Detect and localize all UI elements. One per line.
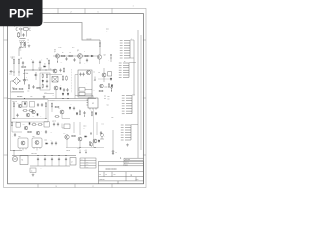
resistor R36 (46, 74, 47, 79)
svg-text:Cxx: Cxx (107, 105, 110, 107)
svg-text:xxx x: xxx x (106, 29, 109, 31)
capacitor C3 (39, 61, 41, 65)
varistor ZNR1 (18, 32, 20, 38)
transistor Q17 (93, 139, 97, 143)
resistor R5 (68, 55, 73, 56)
svg-text:xxx: xxx (19, 136, 21, 138)
inductor L2 box (70, 158, 76, 166)
wire r16 down (51, 108, 53, 112)
wire bus2 (48, 100, 88, 102)
node bridge minus (13, 81, 14, 82)
resistor R9 (66, 76, 67, 81)
diode D13 zener (112, 150, 114, 155)
svg-text:x xx x: x xx x (44, 91, 47, 93)
resistor R16 (51, 103, 52, 108)
wire right drop (112, 130, 114, 150)
fuse F1 (22, 28, 31, 30)
wire r15 chain (45, 107, 47, 118)
inductor L1 common mode choke (20, 38, 26, 43)
resistor R18 (55, 116, 60, 117)
resistor R7 (63, 68, 64, 73)
terminal GND box (30, 168, 36, 173)
capacitor C27 (100, 131, 102, 135)
resistor R11 (99, 90, 104, 91)
wire q2 stub (79, 58, 81, 63)
net arrow 1 (79, 150, 81, 154)
wire R30 down (99, 47, 101, 55)
svg-text:xxxx: xxxx (86, 167, 89, 169)
resistor R4 (61, 55, 66, 56)
svg-text:x xx: x xx (111, 117, 114, 119)
wire q3 stub (99, 59, 101, 64)
wire to U2 (75, 96, 93, 99)
connector CN2 (123, 63, 129, 77)
net arrow 2 (85, 150, 87, 154)
svg-text:xxxx xxx: xxxx xxx (100, 179, 105, 181)
resistor R2 (18, 59, 19, 65)
wire out left (10, 150, 22, 152)
svg-text:x.x x.x: x.x x.x (38, 68, 42, 70)
diode D19 (45, 143, 48, 145)
wire C34 drop (65, 161, 67, 166)
net arrow T1 (94, 77, 96, 81)
wire sec bottom (12, 118, 46, 120)
svg-text:x xx: x xx (10, 74, 13, 76)
transistor Q2 (78, 54, 83, 59)
node C33 top (59, 155, 60, 156)
node bus46 (46, 70, 47, 71)
block outline reg A (18, 138, 28, 148)
block outline secondary stage (11, 100, 48, 123)
node midb j (95, 147, 96, 148)
resistor R44 (19, 88, 24, 89)
resistor R8 (62, 76, 63, 81)
svg-text:Q15: Q15 (63, 133, 66, 135)
capacitor C9 (16, 114, 18, 118)
capacitor C7 (37, 103, 39, 107)
resistor R34 (36, 87, 41, 88)
wire midb v2 (79, 122, 81, 135)
component right mid small (110, 54, 112, 62)
svg-text:xx x: xx x (72, 47, 75, 49)
capacitor C20 (86, 59, 88, 63)
wire snub left (35, 72, 37, 80)
capacitor C12 (53, 123, 55, 127)
resistor R14 (29, 110, 34, 111)
capacitor C24 (45, 130, 47, 134)
svg-text:x xx: x xx (38, 87, 41, 89)
node b2 (24, 70, 25, 71)
resistor R45 (42, 84, 43, 89)
node C31 top (45, 155, 46, 156)
diode D9 (110, 78, 112, 81)
diode D10 (84, 136, 87, 138)
transformer T2 (12, 156, 17, 161)
capacitor C11 (83, 111, 85, 115)
transistor Q4 (53, 69, 57, 73)
wire q16 stub (79, 141, 81, 148)
transistor Q6 (100, 84, 104, 88)
capacitor CX1 (22, 33, 24, 37)
wire c3 drop (39, 64, 41, 70)
node bus j3 (24, 98, 25, 99)
resistor R1 (13, 59, 14, 65)
wire CN2 feed (129, 62, 136, 64)
node c2 (33, 70, 34, 71)
diode D17 (95, 112, 97, 115)
svg-text:x xx: x xx (27, 91, 30, 93)
capacitor C23 (79, 73, 81, 77)
component box mid (64, 124, 70, 129)
transistor Q5 (102, 73, 106, 77)
wire b+ rail (25, 70, 56, 77)
transistor Q11 (24, 126, 28, 130)
bridge rectifier BD1 (13, 78, 20, 85)
node d7 bus (68, 98, 69, 99)
svg-text:x xx x: x xx x (83, 126, 87, 128)
ground out (32, 174, 35, 177)
svg-text:PDF: PDF (9, 7, 33, 21)
wire C31 drop (44, 161, 46, 166)
svg-text:x xx x xx x: x xx x xx x (31, 153, 37, 155)
diode D1 (43, 66, 46, 68)
capacitor C13 (57, 123, 59, 127)
svg-text:Q10: Q10 (58, 108, 61, 110)
capacitor C31 output filter (44, 158, 46, 162)
node r1 low (14, 72, 15, 73)
capacitor C29 (22, 61, 24, 65)
node bridge plus (20, 81, 21, 82)
svg-text:K1: K1 (22, 160, 24, 162)
wire out bus bottom (30, 165, 70, 167)
transistor Q16 (78, 137, 82, 141)
svg-text:xxx xxx: xxx xxx (87, 38, 92, 40)
capacitor C34 output filter (65, 158, 67, 162)
capacitor CY1 (23, 43, 25, 47)
node u2a (84, 116, 85, 117)
wire clow bottom (80, 115, 96, 117)
capacitor C26 (55, 142, 57, 146)
wire C30 drop (37, 161, 39, 166)
wire R1 down (13, 64, 15, 76)
diode D8 (69, 107, 71, 110)
wire ladder1 feed (130, 39, 134, 41)
wire CN4 feed (131, 124, 138, 126)
relay K1 box (20, 156, 28, 165)
wire left rail down (10, 92, 12, 151)
diode D21 (76, 112, 78, 115)
node q1e (57, 62, 58, 63)
svg-text:x xx: x xx (19, 50, 22, 52)
optocoupler PC2 box (30, 102, 35, 108)
resistor R13 (23, 110, 28, 111)
component box CT1 (52, 77, 58, 83)
svg-text:xxxx: xxxx (86, 162, 89, 164)
wire q5 top (103, 68, 105, 73)
diode pair D11 (90, 133, 92, 135)
resistor R23 (71, 135, 76, 136)
svg-text:x x x: x x x (136, 179, 139, 181)
resistor R12 (13, 102, 14, 107)
resistor R41 (89, 141, 90, 146)
transistor Q3 (97, 55, 101, 59)
transistor Q12 (36, 131, 40, 135)
wire bridge gnd (11, 81, 25, 92)
wire switch row bus (53, 55, 98, 57)
svg-text:x xxx: x xxx (44, 140, 47, 142)
capacitor C6 (66, 88, 68, 92)
svg-text:L1: L1 (28, 40, 30, 42)
wire L line (20, 30, 22, 37)
resistor R39 (91, 111, 92, 116)
capacitor C10 (73, 107, 75, 111)
svg-text:xxxx: xxxx (105, 86, 108, 88)
node C34 top (66, 155, 67, 156)
wire right long rail 2 (137, 30, 139, 158)
capacitor C28 (34, 74, 37, 76)
capacitor C22 (46, 85, 48, 89)
transformer T1 box (78, 70, 92, 97)
capacitor C30 (10, 70, 13, 72)
transistor Q10 (60, 110, 64, 114)
wire clow join (62, 114, 70, 119)
node midb j2 (80, 147, 81, 148)
node sec1 (14, 118, 15, 119)
wire R2 down (18, 64, 20, 76)
wire midb bottom (66, 147, 104, 149)
resistor R3 (48, 60, 49, 65)
svg-text:xx-xxx: xx-xxx (17, 96, 22, 98)
wire regA down (22, 150, 24, 151)
connector AC inlet P1 (16, 28, 22, 31)
wire filter outB (25, 42, 27, 48)
wire r3 drop (48, 65, 50, 70)
capacitor C1 bulk electrolytic (23, 77, 26, 85)
snubber box outline (40, 73, 50, 90)
wire right long rail 1 (133, 40, 135, 95)
wire AC line top (44, 23, 97, 41)
capacitor C5 (63, 88, 65, 92)
svg-text:x x x x x: x x x x x (50, 99, 55, 101)
reg B pins (34, 148, 40, 150)
resistor R22 (38, 124, 43, 125)
transistor Q1 (55, 54, 59, 58)
component VR1 box (16, 123, 20, 128)
diode D15 (42, 80, 44, 83)
transistor Q13 (21, 141, 25, 145)
wire filter outA (19, 42, 21, 56)
svg-text:xxx: xxx (104, 95, 106, 97)
diode D4 zener (111, 84, 113, 87)
IC U2 regulator (87, 98, 99, 110)
capacitor C25 (14, 133, 16, 137)
wire midb v1 (73, 122, 75, 133)
svg-text:xxxxx xxxxx: xxxxx xxxxx (105, 169, 117, 171)
PDF badge (0, 0, 43, 26)
svg-text:R3: R3 (47, 59, 49, 61)
svg-text:xxx: xxx (108, 99, 110, 101)
capacitor C17 (32, 85, 34, 89)
resistor R6 (84, 55, 89, 56)
resistor R15 (45, 102, 46, 107)
ground CN4 (126, 144, 129, 147)
wire midb in (62, 124, 64, 129)
reg A pins (20, 148, 26, 150)
node out1 (14, 150, 15, 151)
capacitor C30 output filter (37, 158, 39, 162)
transistor Q8 (32, 110, 36, 114)
wire main ground bus (8, 98, 96, 100)
capacitor C32 output filter (51, 158, 53, 162)
node q2e (80, 63, 81, 64)
wire N line (26, 31, 28, 37)
node C30 top (38, 155, 39, 156)
transistor Q7 (18, 104, 22, 108)
inductor L3 small (19, 46, 24, 49)
capacitor C4 (59, 69, 61, 73)
ground snub (43, 96, 46, 99)
svg-text:xxx xxxx: xxx xxxx (125, 159, 130, 161)
transistor Q2b (86, 70, 90, 74)
svg-text:xxxx: xxxx (86, 164, 89, 166)
wire row121 (12, 127, 22, 132)
ground CY (28, 45, 31, 48)
capacitor C18 (65, 57, 67, 61)
svg-text:Q1: Q1 (54, 51, 56, 53)
node sec2 (46, 118, 47, 119)
wire out drop (13, 151, 15, 156)
block outline reg B (32, 138, 42, 148)
svg-text:+: + (26, 77, 27, 79)
node bus j2 (68, 98, 69, 99)
wire q5 cross (98, 78, 110, 80)
svg-text:x xx xx: x xx xx (66, 150, 70, 152)
node d6 bus (63, 98, 64, 99)
resistor R33 (28, 84, 29, 89)
wire c2 drop (32, 64, 34, 70)
svg-text:D1: D1 (44, 63, 46, 65)
capacitor C19 (73, 58, 75, 62)
wire r12 down (13, 107, 15, 118)
wire T1 left rail (75, 75, 78, 99)
wire U2 down (93, 110, 95, 148)
wire q1 stub (57, 58, 59, 62)
title block frame (99, 158, 144, 184)
capacitor C24b (82, 73, 84, 77)
wire v97 (96, 122, 98, 135)
diode D12 (111, 85, 113, 91)
svg-text:R2: R2 (21, 58, 23, 60)
capacitor C14 (51, 142, 53, 146)
resistor R32 (21, 66, 26, 67)
connector CN3 (126, 96, 132, 114)
wire C33 drop (58, 161, 60, 166)
node bus j1 (63, 98, 64, 99)
capacitor C8 (41, 103, 43, 107)
svg-text:xxx: xxx (104, 98, 106, 100)
diode D18 (29, 122, 31, 125)
svg-text:Q2: Q2 (77, 50, 79, 52)
transistor Q19 (54, 86, 58, 90)
resistor R20 (11, 122, 12, 127)
node C32 top (52, 155, 53, 156)
diode D3 (60, 87, 62, 90)
resistor R19 (79, 110, 80, 115)
svg-text:x xx: x xx (102, 124, 105, 126)
node AC junction (21, 44, 22, 45)
node r2 low (19, 72, 20, 73)
transistor Q14 (35, 141, 39, 145)
svg-text:xxxx: xxxx (125, 164, 128, 166)
capacitor C33 output filter (58, 158, 60, 162)
resistor R42 (91, 142, 92, 147)
capacitor C2 (32, 61, 34, 65)
transistor Q15 (65, 135, 69, 139)
diode D2 (91, 55, 94, 57)
diode D16 (37, 113, 39, 116)
svg-text:U2: U2 (92, 103, 94, 105)
node right1 (111, 91, 112, 92)
wire q19 down (55, 90, 57, 99)
wire ladder3 feed (132, 94, 135, 96)
wire right long rail 3 (140, 35, 142, 150)
diode D7 (67, 93, 69, 96)
svg-text:x xx: x xx (78, 148, 81, 150)
resistor R10 (108, 83, 109, 88)
svg-text:xxx Vdc: xxx Vdc (23, 73, 29, 75)
diode D6 (62, 93, 64, 96)
svg-text:xxx: xxx (33, 136, 35, 138)
diode D20 (98, 140, 100, 143)
svg-text:xxx: xxx (54, 49, 56, 51)
svg-text:Q11: Q11 (23, 124, 25, 126)
component VR2 box (44, 122, 49, 127)
wire upper band (12, 91, 24, 93)
wire q5 down (103, 77, 105, 82)
svg-text:x x xx: x x xx (58, 47, 62, 49)
wire out bus top (12, 155, 76, 157)
wire top to R30 (96, 40, 100, 43)
transistor Q18 right low (100, 134, 104, 140)
wire snub bottom (44, 93, 54, 95)
connector J5 table (80, 158, 96, 168)
node c3 (40, 70, 41, 71)
dashed shield edge (71, 69, 73, 93)
svg-text:Q3: Q3 (104, 55, 106, 57)
svg-text:R1: R1 (12, 58, 14, 60)
svg-text:xxx: xxx (114, 174, 116, 176)
resistor R17 (55, 106, 60, 107)
svg-text:xxx: xxx (108, 96, 110, 98)
svg-text:x xx: x xx (30, 96, 33, 98)
resistor R35 (42, 74, 43, 79)
wire q15 stub (66, 139, 68, 147)
resistor R43 (13, 88, 18, 89)
component box right (108, 72, 112, 76)
node bus40 (40, 70, 41, 71)
diode D5 (24, 102, 26, 105)
svg-text:C1: C1 (27, 80, 29, 82)
wire ctrl hline (48, 74, 62, 76)
capacitor C21 (46, 80, 48, 84)
wire regB down (36, 149, 38, 151)
optocoupler PC1 box (22, 102, 27, 108)
connector CN1 (124, 41, 130, 59)
wire C32 drop (51, 161, 53, 166)
svg-text:xxx xx: xxx xx (125, 162, 129, 164)
wire CN1 tail (130, 57, 134, 59)
resistor R40 (27, 131, 32, 132)
